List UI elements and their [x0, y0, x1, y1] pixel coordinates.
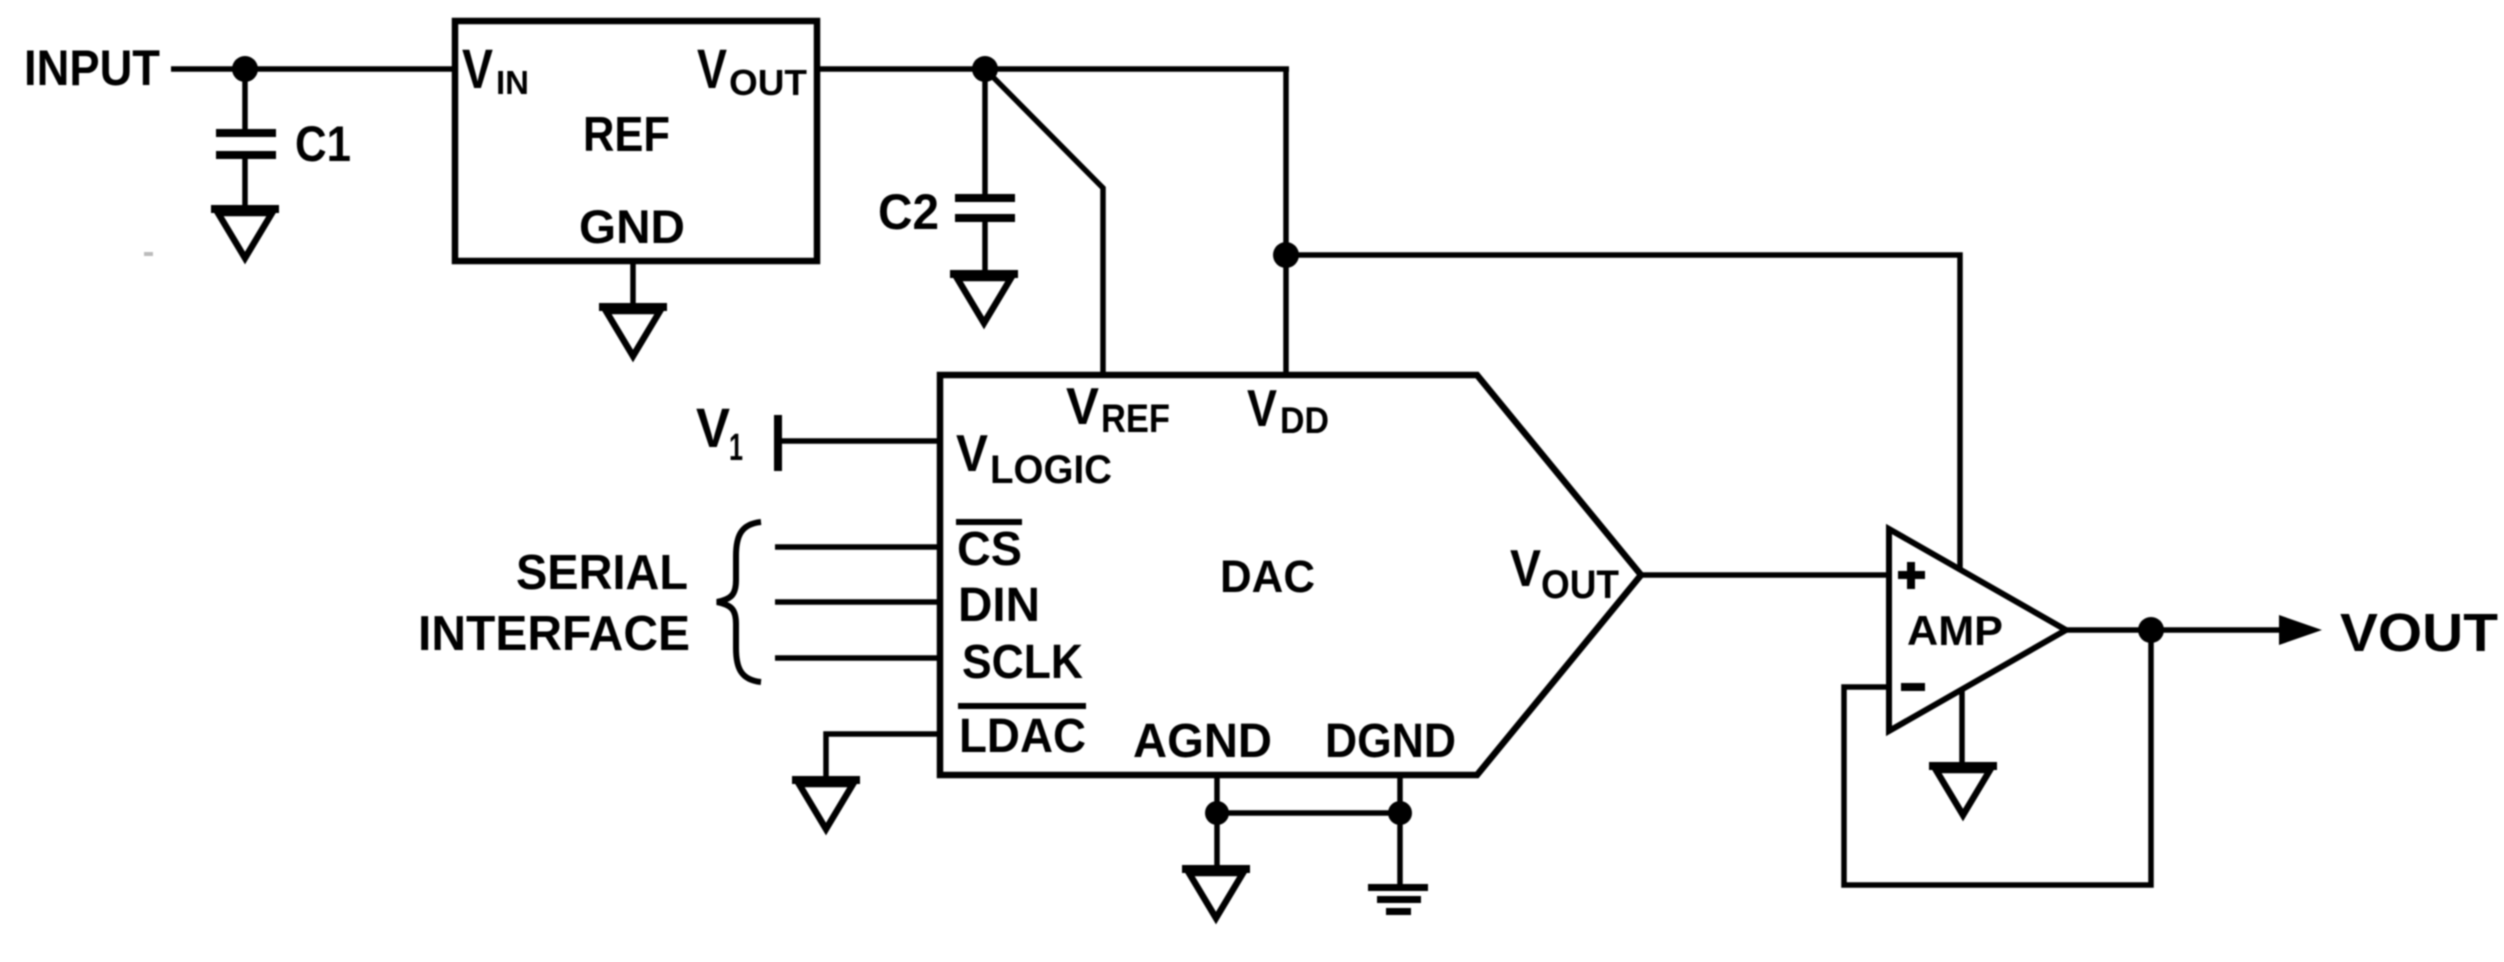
svg-text:V: V	[956, 425, 988, 483]
wire INPUT to REF VIN	[171, 66, 455, 72]
svg-text:DAC: DAC	[1220, 551, 1315, 602]
wire SCLK	[775, 655, 942, 661]
brace serial interface	[717, 522, 761, 682]
ground below AGND	[1182, 865, 1250, 918]
wire LDAC to ground	[826, 734, 942, 777]
wire AMP output	[2066, 627, 2282, 633]
svg-text:V: V	[697, 37, 727, 100]
svg-text:C2: C2	[878, 184, 939, 240]
ground below C2	[950, 270, 1018, 323]
svg-text:IN: IN	[496, 64, 529, 101]
wire AMP ground lead	[1959, 680, 1965, 765]
pin label VOUT of REF	[697, 37, 807, 103]
wire corner down to VDD pin	[1283, 69, 1289, 378]
svg-text:V: V	[462, 37, 493, 100]
svg-text:INPUT: INPUT	[24, 40, 160, 96]
svg-text:AGND: AGND	[1133, 715, 1272, 768]
pin label CS with overline	[956, 522, 1022, 576]
ground below REF	[599, 303, 667, 356]
svg-text:VOUT: VOUT	[2340, 603, 2498, 663]
ground below AMP	[1929, 762, 1997, 815]
svg-text:V: V	[696, 396, 730, 459]
node junction AGND	[1205, 801, 1229, 825]
wire AGND pin	[1214, 773, 1220, 867]
svg-text:SERIAL: SERIAL	[516, 546, 688, 600]
svg-text:SCLK: SCLK	[962, 636, 1083, 689]
svg-text:V: V	[1510, 540, 1541, 598]
svg-text:DGND: DGND	[1325, 715, 1456, 768]
capacitor C2	[955, 69, 1015, 272]
op-amp AMP triangle	[1889, 529, 2066, 731]
wire DAC VOUT to AMP plus input	[1641, 572, 1892, 578]
node junction DGND	[1388, 801, 1412, 825]
svg-text:LDAC: LDAC	[959, 710, 1086, 763]
node junction VDD/AMP supply	[1273, 242, 1299, 268]
minus input symbol	[1901, 683, 1925, 691]
svg-text:C1: C1	[295, 116, 351, 172]
svg-text:V: V	[1066, 378, 1099, 436]
svg-text:INTERFACE: INTERFACE	[418, 607, 690, 661]
pin label VLOGIC	[956, 425, 1112, 492]
plus input symbol	[1898, 562, 1925, 589]
node junction output	[2138, 617, 2164, 643]
stray mark	[144, 252, 153, 256]
svg-text:1: 1	[729, 427, 743, 469]
wire CS	[775, 544, 942, 550]
svg-text:GND: GND	[579, 200, 685, 253]
pin label VDD	[1247, 380, 1329, 441]
ref box REF	[455, 21, 817, 261]
wire diagonal junction to VREF pin	[987, 71, 1103, 378]
pin label VIN	[462, 37, 529, 101]
wire feedback loop	[1844, 630, 2151, 885]
svg-text:AMP: AMP	[1907, 607, 2003, 654]
svg-text:DD: DD	[1280, 400, 1329, 441]
svg-text:DIN: DIN	[958, 579, 1040, 632]
terminal bar V1	[774, 415, 782, 471]
svg-text:REF: REF	[1101, 397, 1170, 441]
svg-text:OUT: OUT	[729, 62, 807, 103]
svg-text:CS: CS	[957, 523, 1022, 576]
svg-text:REF: REF	[583, 108, 670, 162]
wire AGND to DGND link	[1217, 810, 1400, 816]
earth ground below DGND	[1368, 884, 1428, 915]
node junction VOUT/C2	[972, 56, 998, 82]
ground below LDAC	[792, 776, 860, 829]
wire V1 to VLOGIC	[782, 438, 942, 444]
wire REF VOUT to VDD corner	[817, 66, 1289, 72]
svg-text:LOGIC: LOGIC	[990, 448, 1112, 492]
pin label LDAC with overline	[958, 706, 1086, 763]
node junction input/C1	[232, 56, 258, 82]
arrow to VOUT	[2279, 615, 2322, 645]
wire GND pin of REF	[630, 261, 636, 305]
pin label VOUT of DAC	[1510, 540, 1619, 607]
pin label VREF	[1066, 378, 1170, 441]
svg-text:V: V	[1247, 380, 1277, 438]
svg-text:OUT: OUT	[1541, 563, 1619, 607]
ground below C1	[211, 205, 279, 258]
capacitor C1	[216, 69, 276, 210]
wire DGND pin	[1397, 773, 1403, 886]
label V1	[696, 396, 743, 469]
wire supply to AMP	[1286, 255, 1960, 570]
dac body DAC	[940, 375, 1641, 775]
wire DIN	[775, 599, 942, 605]
